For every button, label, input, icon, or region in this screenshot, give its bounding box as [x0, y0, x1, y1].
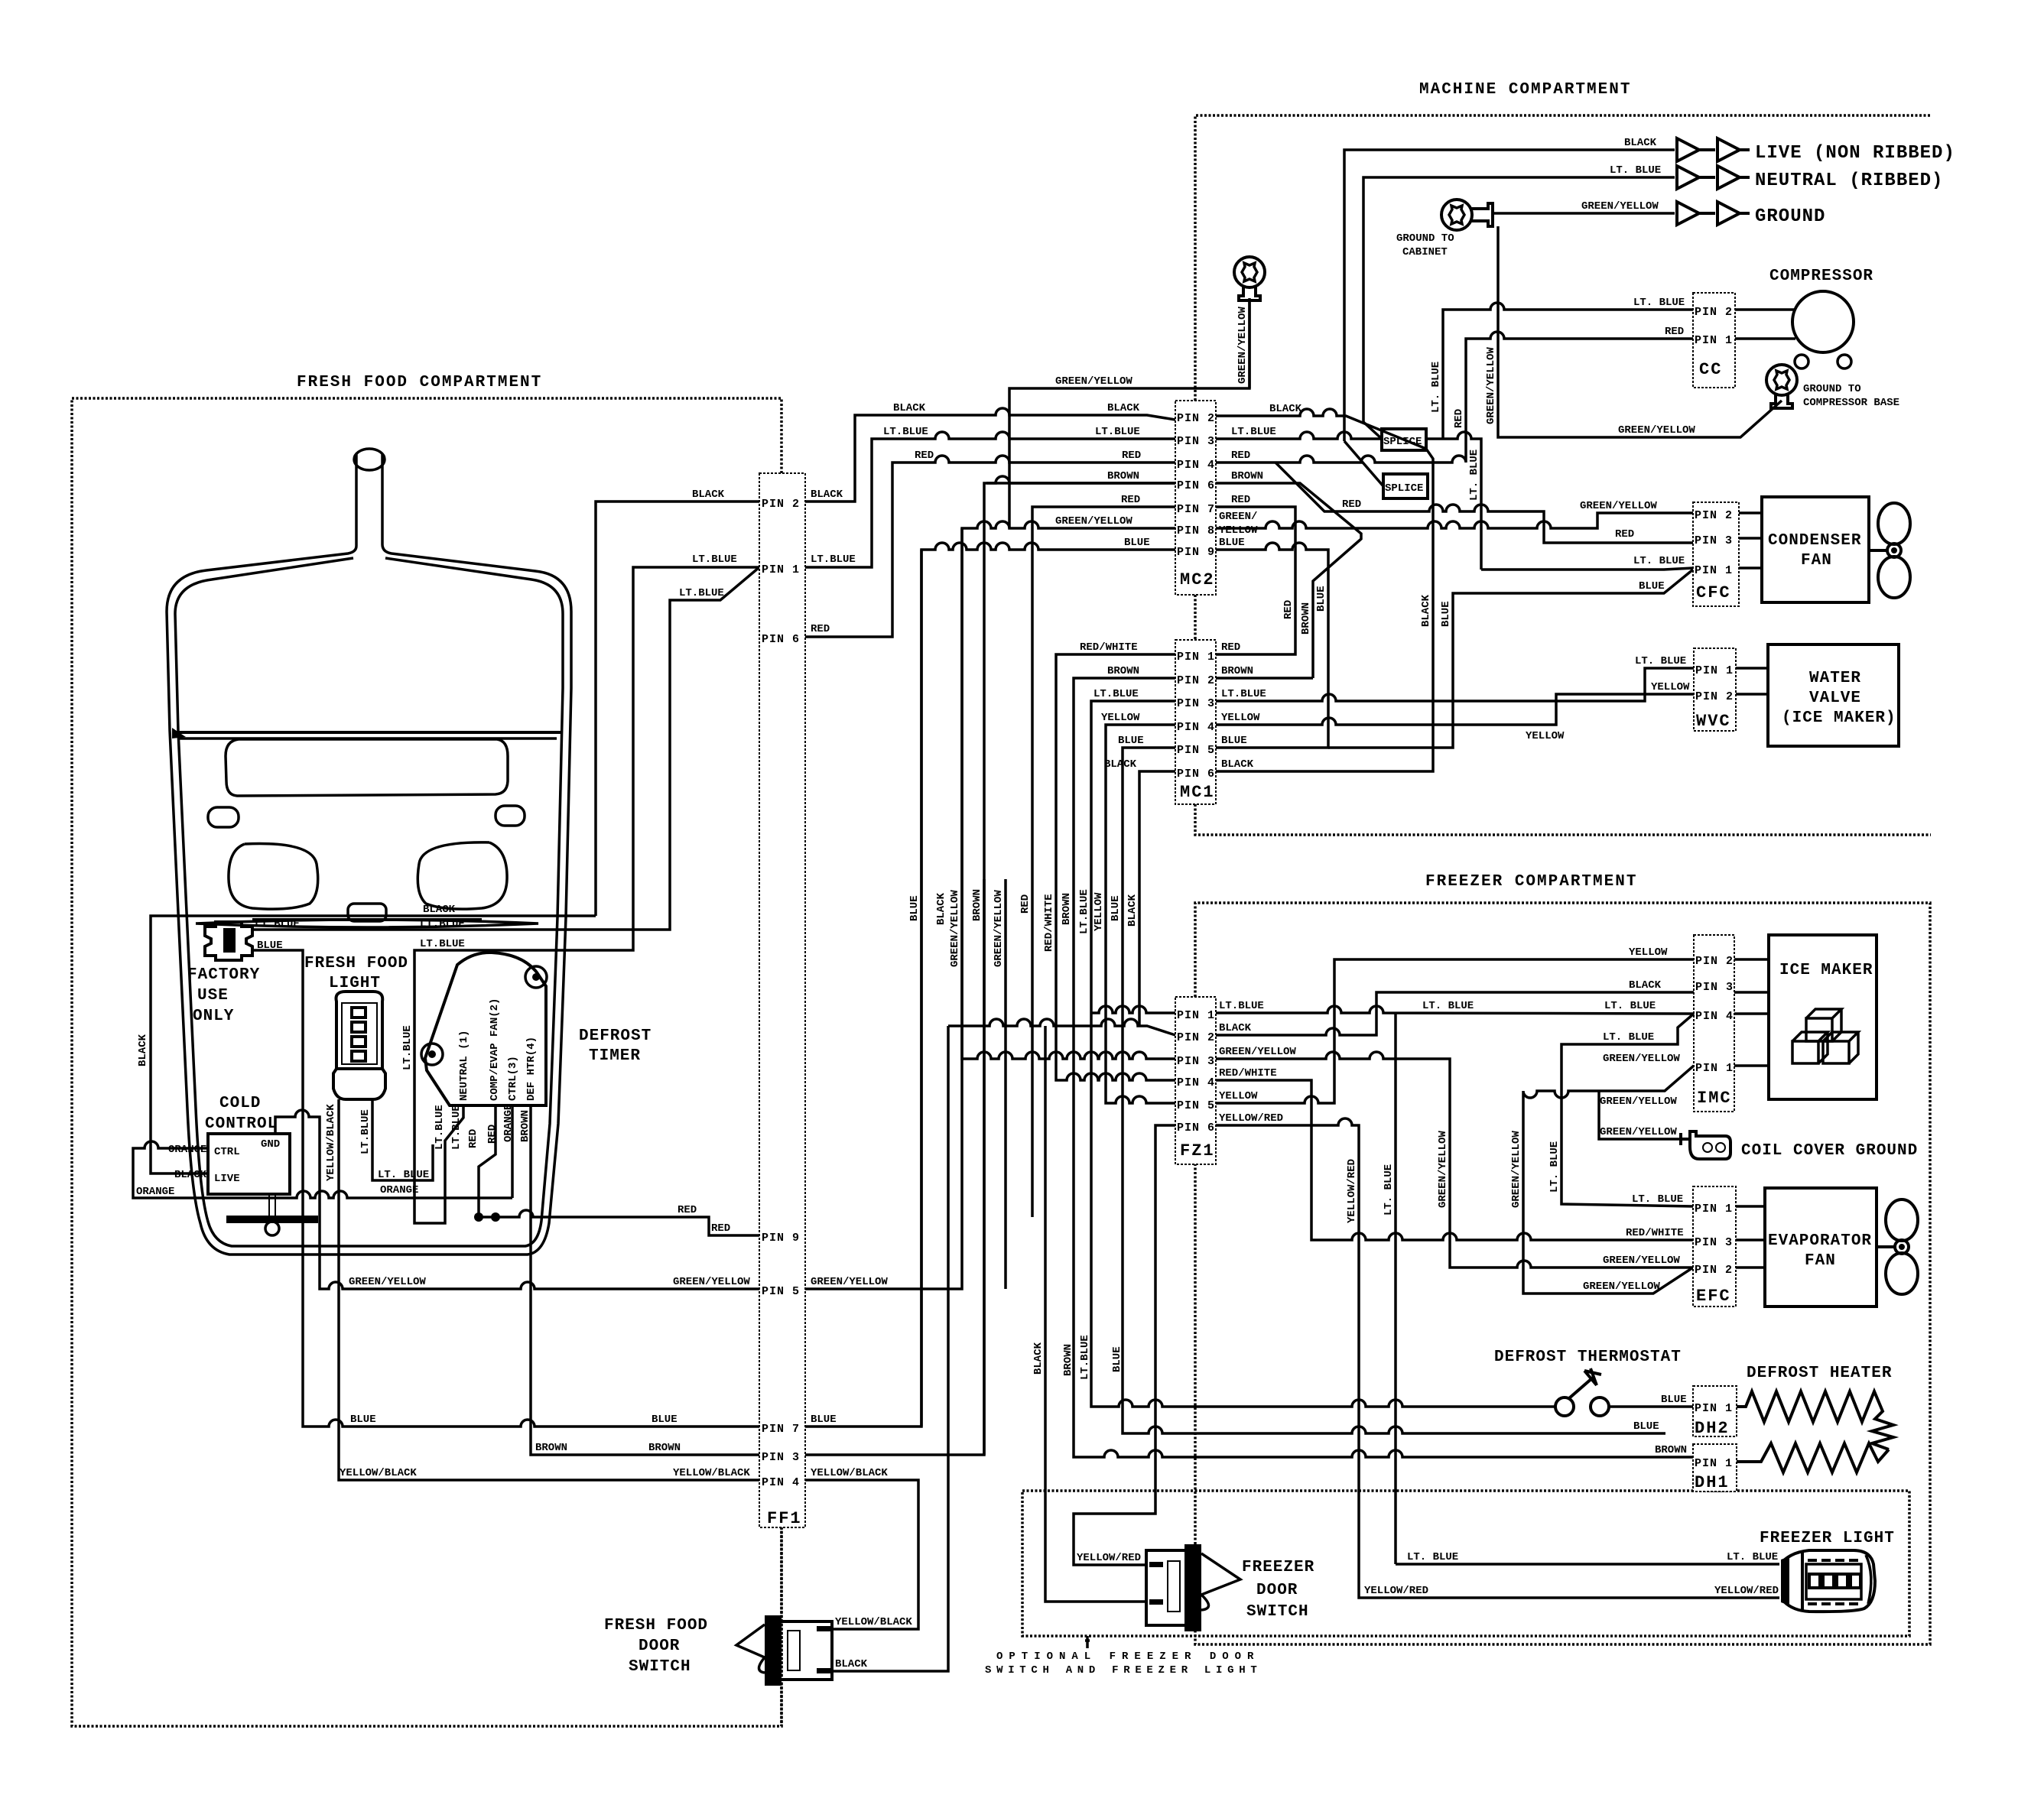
svg-text:BLACK: BLACK: [935, 892, 947, 925]
cold control knob circle: [265, 1222, 279, 1235]
svg-text:YELLOW/RED: YELLOW/RED: [1219, 1112, 1283, 1125]
wire green/yellow IMC pin1 network: [1523, 1066, 1694, 1294]
svg-text:RED: RED: [711, 1222, 730, 1235]
fresh food door switch body: [775, 1621, 832, 1680]
bundle vertical brown: [983, 879, 986, 1455]
liner evaporator cover panel: [226, 739, 508, 796]
freezer door switch beak: [1201, 1553, 1240, 1610]
svg-text:PIN 2: PIN 2: [1177, 674, 1215, 687]
wire blue thermostat to DH2 pin1: [1609, 1405, 1693, 1408]
wire black live line: [1344, 150, 1675, 441]
machine compartment border bottom: [1195, 804, 1931, 835]
ice maker box: [1769, 935, 1877, 1099]
svg-text:BROWN: BROWN: [1061, 893, 1073, 925]
connector DH2 box: [1693, 1386, 1737, 1436]
svg-text:RED: RED: [1665, 326, 1684, 338]
svg-text:PIN 2: PIN 2: [762, 498, 800, 511]
svg-text:PIN 2: PIN 2: [1695, 306, 1733, 319]
svg-text:YELLOW/BLACK: YELLOW/BLACK: [811, 1467, 888, 1479]
wire black MC1 pin6 right to splice2: [1216, 498, 1433, 771]
svg-text:LT.BLUE: LT.BLUE: [359, 1109, 372, 1154]
svg-text:DH2: DH2: [1695, 1419, 1730, 1438]
connector MC1 box: [1175, 640, 1216, 804]
wire IMC pin3 to box: [1734, 991, 1769, 994]
wire CC pin2 to compressor: [1735, 308, 1795, 311]
wire lt. blue to freezer light: [1396, 1563, 1779, 1566]
ground lug machine left tail: [1239, 286, 1260, 300]
svg-text:LT. BLUE: LT. BLUE: [1468, 450, 1480, 501]
connector FZ1 box: [1175, 997, 1216, 1164]
svg-text:PIN 4: PIN 4: [1695, 1010, 1734, 1023]
svg-text:LT. BLUE: LT. BLUE: [1727, 1551, 1778, 1563]
svg-text:CFC: CFC: [1696, 583, 1731, 602]
wire brown FF1 pin3 to MC2 pin6: [805, 476, 1175, 1455]
svg-text:BLACK: BLACK: [1624, 137, 1657, 149]
svg-text:RED: RED: [486, 1125, 499, 1144]
machine compartment border lower: [1194, 595, 1197, 640]
ground arrow 2: [1699, 202, 1750, 225]
svg-text:LIVE (NON RIBBED): LIVE (NON RIBBED): [1755, 143, 1955, 164]
liner shelf band lower: [177, 737, 557, 740]
svg-text:TIMER: TIMER: [589, 1047, 641, 1065]
svg-text:RED/WHITE: RED/WHITE: [1626, 1227, 1684, 1239]
svg-text:DEFROST: DEFROST: [579, 1027, 652, 1045]
svg-text:GREEN/YELLOW: GREEN/YELLOW: [1581, 200, 1659, 213]
bundle vertical brown2 to DH1: [1074, 879, 1693, 1457]
svg-text:BROWN: BROWN: [1107, 470, 1139, 482]
wire red timer comp to FF1 pin9: [479, 1105, 759, 1235]
svg-text:BLUE: BLUE: [257, 940, 283, 952]
freezer door switch body: [1146, 1550, 1198, 1625]
svg-text:GROUND TO: GROUND TO: [1803, 383, 1861, 395]
svg-text:LT.BLUE: LT.BLUE: [679, 587, 724, 599]
svg-text:SPLICE: SPLICE: [1385, 482, 1423, 495]
svg-text:MACHINE COMPARTMENT: MACHINE COMPARTMENT: [1419, 81, 1631, 99]
connector CFC box: [1693, 502, 1739, 606]
svg-text:LT.BLUE: LT.BLUE: [434, 1105, 446, 1150]
fresh food door switch beak: [736, 1625, 765, 1673]
evaporator fan box: [1765, 1188, 1877, 1306]
svg-text:LT. BLUE: LT. BLUE: [378, 1169, 429, 1181]
svg-text:GROUND TO: GROUND TO: [1396, 232, 1454, 245]
wire IMC pin4 to box: [1734, 1012, 1769, 1015]
wire yellow/black light to FF1 pin4: [339, 1099, 759, 1480]
wire lt.blue IMC pin4 lower branch to EFC pin1: [1561, 1014, 1694, 1206]
svg-text:FRESH FOOD COMPARTMENT: FRESH FOOD COMPARTMENT: [297, 374, 542, 391]
svg-text:FREEZER COMPARTMENT: FREEZER COMPARTMENT: [1425, 873, 1637, 891]
wire lt.blue FZ1 pin1 left: [1091, 1006, 1175, 1013]
optional text tick: [1085, 1636, 1090, 1648]
svg-text:RED: RED: [1231, 494, 1250, 506]
svg-text:LT.BLUE: LT.BLUE: [420, 918, 465, 930]
compressor circle: [1792, 291, 1854, 352]
bundle vertical lt.blue to thermostat: [1091, 879, 1555, 1407]
wire lt.blue neutral line: [1363, 177, 1675, 422]
svg-text:ORANGE: ORANGE: [502, 1104, 515, 1142]
wire IMC pin1 to box: [1734, 1064, 1769, 1067]
svg-text:CONDENSER: CONDENSER: [1768, 532, 1861, 550]
svg-text:LT.BLUE: LT.BLUE: [1095, 426, 1140, 438]
water valve box: [1768, 644, 1899, 746]
svg-text:PIN 2: PIN 2: [1177, 412, 1215, 425]
svg-text:PIN 9: PIN 9: [1177, 546, 1215, 559]
svg-text:CABINET: CABINET: [1402, 246, 1448, 258]
connector MC2 box: [1175, 401, 1216, 595]
svg-text:BLACK: BLACK: [1032, 1342, 1045, 1375]
svg-text:PIN 3: PIN 3: [1695, 1236, 1733, 1249]
wire black fresh food door switch up: [832, 1026, 948, 1671]
freezer door switch terminal bottom: [1149, 1599, 1163, 1605]
wire red MC2 pin4 right up to CC pin1: [1216, 332, 1693, 463]
wire green/yellow lug stem: [1248, 300, 1251, 388]
svg-text:BLUE: BLUE: [350, 1414, 376, 1426]
svg-text:PIN 6: PIN 6: [1177, 479, 1215, 492]
freezer light glass line: [1866, 1555, 1871, 1604]
svg-text:ORANGE: ORANGE: [136, 1186, 174, 1198]
ground lug cabinet circle: [1441, 200, 1472, 230]
wire CFC pin2 to fan box: [1739, 511, 1762, 514]
condenser fan box: [1762, 497, 1869, 602]
svg-text:PIN 3: PIN 3: [1177, 697, 1215, 710]
svg-text:LT.BLUE: LT.BLUE: [450, 1105, 463, 1150]
svg-text:PIN 7: PIN 7: [1177, 503, 1215, 516]
svg-text:RED: RED: [915, 450, 934, 462]
splice box 2: [1383, 474, 1428, 498]
svg-text:ORANGE: ORANGE: [380, 1184, 418, 1196]
connector WVC box: [1694, 648, 1736, 731]
wire mc2 pin6 brown right diagonal to MC1 pin2: [1216, 483, 1361, 678]
svg-text:GREEN/YELLOW: GREEN/YELLOW: [1219, 1046, 1296, 1058]
svg-text:FREEZER: FREEZER: [1242, 1559, 1314, 1576]
svg-text:PIN 3: PIN 3: [1695, 534, 1733, 547]
svg-text:PIN 5: PIN 5: [762, 1285, 800, 1298]
ground lug cabinet star: [1449, 206, 1464, 224]
svg-text:BLACK: BLACK: [1104, 758, 1137, 771]
wire red/white MC1 pin1 left down: [1056, 654, 1175, 879]
wire lt.blue MC1 pin3 right: [1216, 668, 1694, 701]
svg-text:EFC: EFC: [1696, 1287, 1731, 1306]
svg-text:BROWN: BROWN: [1062, 1344, 1074, 1376]
factory plug connector: [205, 922, 252, 960]
evaporator fan blade bottom: [1886, 1253, 1918, 1294]
liner duct right: [418, 842, 507, 909]
svg-text:LT. BLUE: LT. BLUE: [1633, 297, 1685, 309]
wire yellow/red FZ1 pin6 left to freezer door switch: [1074, 1125, 1175, 1565]
liner shelf band arrow: [172, 728, 186, 738]
svg-text:BLUE: BLUE: [1221, 735, 1247, 747]
wire brown MC2 pin6 down bundle: [986, 482, 1175, 485]
wire black freezer door switch up: [1045, 1026, 1146, 1602]
svg-text:PIN 3: PIN 3: [1177, 435, 1215, 448]
wire lt.blue splice down to CFC pin1: [1481, 568, 1693, 570]
liner slot right: [496, 806, 525, 826]
svg-text:YELLOW/BLACK: YELLOW/BLACK: [340, 1467, 417, 1479]
defrost thermostat arm: [1569, 1368, 1601, 1398]
svg-text:RED: RED: [1122, 450, 1141, 462]
svg-text:PIN 1: PIN 1: [1695, 1457, 1733, 1470]
wire black FF1 pin2 right to MC2 pin2: [805, 408, 1175, 502]
svg-text:LT.BLUE: LT.BLUE: [811, 553, 856, 566]
svg-text:BLUE: BLUE: [1315, 586, 1327, 612]
svg-text:MC1: MC1: [1180, 783, 1215, 802]
wire lt.blue neutral into splice1: [1363, 422, 1382, 439]
wire green/yellow vertical to MC2 pin8: [805, 521, 1175, 1289]
live arrow 2: [1699, 138, 1750, 161]
svg-text:LT.BLUE: LT.BLUE: [1219, 1000, 1264, 1012]
wire black vertical to FF1 pin2: [596, 502, 759, 916]
svg-text:COMPRESSOR BASE: COMPRESSOR BASE: [1803, 397, 1899, 409]
wire black door switches to FZ1 pin2: [948, 1019, 1175, 1035]
svg-text:PIN 2: PIN 2: [1695, 955, 1734, 968]
ground lug compressor base star: [1774, 371, 1789, 389]
fresh food light bulb: [336, 992, 383, 1069]
wire black MC1 pin6 left down: [1139, 771, 1175, 879]
svg-text:PIN 7: PIN 7: [762, 1423, 800, 1436]
svg-text:CTRL: CTRL: [214, 1146, 240, 1158]
coil cover ground lug: [1681, 1131, 1730, 1159]
svg-text:GREEN/YELLOW: GREEN/YELLOW: [1510, 1131, 1522, 1208]
svg-text:GND: GND: [261, 1138, 280, 1151]
svg-text:LT. BLUE: LT. BLUE: [1422, 1000, 1474, 1012]
wire lt.blue branch down to thermostat: [1394, 1013, 1397, 1564]
wire red FF1 pin6 right to MC2 pin4: [805, 456, 1175, 637]
svg-text:GREEN/YELLOW: GREEN/YELLOW: [349, 1276, 426, 1288]
svg-text:YELLOW: YELLOW: [1221, 712, 1260, 724]
wire lt.blue factory plug to FF1 pin1 branch: [252, 567, 759, 930]
svg-text:LT. BLUE: LT. BLUE: [1430, 362, 1442, 413]
svg-text:SPLICE: SPLICE: [1383, 436, 1422, 448]
svg-text:YELLOW/RED: YELLOW/RED: [1714, 1585, 1779, 1597]
liner bottom shelf: [196, 920, 538, 927]
wire orange timer ctrl stem: [511, 1105, 514, 1198]
svg-text:COIL COVER GROUND: COIL COVER GROUND: [1741, 1142, 1918, 1160]
svg-text:RED/WHITE: RED/WHITE: [1043, 894, 1055, 952]
wire blue FF1 pin7 to MC2 pin9: [805, 543, 1175, 1427]
svg-text:OPTIONAL FREEZER DOOR: OPTIONAL FREEZER DOOR: [996, 1651, 1259, 1663]
svg-text:BLACK: BLACK: [811, 489, 843, 501]
defrost timer screw left: [421, 1044, 443, 1065]
ground lug compressor base circle: [1766, 365, 1797, 395]
wire orange cold control CTRL loop: [133, 1141, 512, 1198]
wire blue MC1 pin5 right to CFC pin1: [1328, 570, 1693, 748]
junction dot red 1: [474, 1212, 483, 1222]
svg-text:PIN 1: PIN 1: [1695, 1203, 1733, 1216]
ground lug machine left circle: [1234, 257, 1265, 287]
svg-text:DEF HTR(4): DEF HTR(4): [525, 1037, 538, 1101]
freezer door switch terminal top: [1149, 1562, 1163, 1567]
svg-text:CONTROL: CONTROL: [205, 1115, 278, 1133]
svg-text:BLUE: BLUE: [811, 1414, 837, 1426]
svg-text:YELLOW/RED: YELLOW/RED: [1346, 1159, 1358, 1223]
svg-text:LT. BLUE: LT. BLUE: [1604, 1000, 1656, 1012]
svg-text:LT. BLUE: LT. BLUE: [1548, 1141, 1561, 1193]
svg-text:PIN 4: PIN 4: [1177, 1076, 1215, 1089]
svg-text:GREEN/YELLOW: GREEN/YELLOW: [1580, 500, 1657, 512]
liner tube top: [354, 449, 385, 470]
wire lt.blue FZ1 pin1 right to IMC pin4: [1216, 1006, 1694, 1014]
wire blue MC1 pin5 left down: [1123, 748, 1175, 879]
svg-text:CC: CC: [1699, 360, 1722, 379]
svg-text:LT. BLUE: LT. BLUE: [1383, 1164, 1395, 1216]
splice box 1: [1382, 429, 1426, 450]
svg-text:SWITCH: SWITCH: [629, 1658, 691, 1676]
svg-text:NEUTRAL (1): NEUTRAL (1): [458, 1031, 470, 1101]
svg-text:PIN 1: PIN 1: [1695, 564, 1733, 577]
svg-text:LT.BLUE: LT.BLUE: [883, 426, 928, 438]
wire splice1 right to CC pin2 and down: [1426, 432, 1481, 570]
freezer compartment border: [1195, 903, 1930, 1644]
svg-text:ORANGE: ORANGE: [168, 1144, 206, 1156]
ground lug compressor base tail: [1771, 394, 1792, 408]
neutral arrow 1: [1677, 166, 1699, 189]
svg-text:NEUTRAL (RIBBED): NEUTRAL (RIBBED): [1755, 170, 1943, 191]
svg-text:RED: RED: [1453, 409, 1465, 428]
defrost thermostat contact right: [1591, 1397, 1609, 1416]
svg-text:YELLOW: YELLOW: [1651, 681, 1690, 693]
svg-text:PIN 3: PIN 3: [1177, 1055, 1215, 1068]
svg-text:BROWN: BROWN: [1107, 665, 1139, 677]
defrost timer screw right: [525, 966, 547, 988]
svg-text:YELLOW/BLACK: YELLOW/BLACK: [835, 1616, 912, 1628]
svg-text:BLUE: BLUE: [1633, 1420, 1659, 1433]
svg-text:YELLOW: YELLOW: [1219, 1090, 1258, 1102]
fresh food light bulb base: [333, 1069, 385, 1099]
svg-text:GREEN/YELLOW: GREEN/YELLOW: [949, 890, 961, 967]
svg-text:GREEN/YELLOW: GREEN/YELLOW: [1437, 1131, 1449, 1208]
svg-text:PIN 4: PIN 4: [762, 1476, 800, 1489]
svg-text:ONLY: ONLY: [193, 1008, 234, 1025]
wire lt.blue MC1 pin3 left down: [1091, 701, 1175, 879]
optional freezer light dotted box: [1022, 1491, 1909, 1636]
svg-text:EVAPORATOR: EVAPORATOR: [1768, 1232, 1872, 1250]
svg-text:DOOR: DOOR: [639, 1638, 680, 1655]
condenser fan blade bottom: [1878, 557, 1910, 598]
wire mc2 pin3 lt.blue right to splice1: [1216, 432, 1382, 439]
svg-text:BLACK: BLACK: [1126, 894, 1139, 927]
svg-text:LT. BLUE: LT. BLUE: [1603, 1031, 1654, 1044]
svg-text:PIN 1: PIN 1: [1177, 651, 1215, 664]
svg-text:RED: RED: [1615, 528, 1634, 540]
svg-text:RED: RED: [1221, 641, 1240, 654]
freezer light divider: [1801, 1551, 1804, 1612]
refrigerator liner outline (outer): [167, 453, 571, 1255]
svg-text:GREEN/YELLOW: GREEN/YELLOW: [1600, 1126, 1677, 1138]
svg-text:WATER: WATER: [1809, 670, 1861, 687]
svg-text:LT.BLUE: LT.BLUE: [1221, 688, 1266, 700]
svg-text:BLACK: BLACK: [835, 1658, 868, 1670]
svg-text:PIN 6: PIN 6: [762, 633, 800, 646]
wire WVC pin1 to valve: [1736, 667, 1768, 670]
svg-text:SWITCH: SWITCH: [1246, 1603, 1309, 1621]
svg-text:LT.BLUE: LT.BLUE: [1078, 889, 1090, 934]
bundle vertical green/yellow to FZ1 pin3: [962, 879, 1175, 1059]
svg-text:RED: RED: [678, 1204, 697, 1216]
svg-text:BLUE: BLUE: [1440, 601, 1452, 627]
wire green/yellow ground line: [1493, 212, 1675, 215]
svg-text:BLACK: BLACK: [692, 489, 725, 501]
fresh food door switch terminal top: [817, 1626, 830, 1631]
svg-text:PIN 1: PIN 1: [1695, 1062, 1734, 1075]
wire blue factory plug to FF1 pin7: [252, 950, 759, 1427]
svg-text:LT.BLUE: LT.BLUE: [255, 918, 300, 930]
wire mc2 pin8 green/yellow right to CFC pin2: [1216, 513, 1693, 528]
svg-text:BLUE: BLUE: [908, 895, 921, 921]
svg-text:YELLOW: YELLOW: [1526, 730, 1565, 742]
svg-text:COLD: COLD: [219, 1095, 261, 1112]
svg-text:SWITCH AND FREEZER LIGHT: SWITCH AND FREEZER LIGHT: [985, 1664, 1262, 1677]
liner bottom shelf bar: [252, 918, 482, 921]
svg-text:DEFROST HEATER: DEFROST HEATER: [1747, 1365, 1892, 1382]
freezer light bulb body: [1784, 1550, 1875, 1612]
freezer light inner: [1806, 1564, 1861, 1599]
svg-text:PIN 5: PIN 5: [1177, 744, 1215, 757]
svg-text:RED: RED: [467, 1129, 479, 1148]
freezer light base bar: [1781, 1556, 1789, 1605]
connector DH1 box: [1693, 1444, 1737, 1492]
liner duct left: [229, 844, 318, 910]
fresh food door switch terminal bottom: [817, 1668, 830, 1673]
bundle vertical blue: [920, 879, 923, 1427]
coil cover ground lug eyes: [1703, 1143, 1712, 1152]
svg-text:FACTORY: FACTORY: [187, 966, 260, 984]
svg-text:LIGHT: LIGHT: [329, 975, 381, 992]
freezer door switch slab: [1184, 1544, 1201, 1631]
svg-text:PIN 4: PIN 4: [1177, 721, 1215, 734]
svg-text:BLACK: BLACK: [1221, 758, 1254, 771]
svg-text:BROWN: BROWN: [519, 1110, 531, 1142]
neutral arrow 2: [1699, 166, 1750, 189]
svg-text:GREEN/: GREEN/: [1219, 511, 1257, 523]
svg-text:FAN: FAN: [1805, 1252, 1836, 1270]
svg-text:PIN 8: PIN 8: [1177, 524, 1215, 537]
defrost thermostat contact left: [1555, 1397, 1574, 1416]
wire red/white FZ1 pin4 right to EFC pin3: [1216, 1080, 1693, 1240]
svg-text:BROWN: BROWN: [1655, 1444, 1687, 1456]
svg-text:RED: RED: [1121, 494, 1140, 506]
svg-text:BROWN: BROWN: [648, 1442, 681, 1454]
svg-text:DH1: DH1: [1695, 1473, 1730, 1492]
wire red MC2 pin7 to bundle: [1032, 507, 1175, 879]
wire yellow/red FZ1 pin6 right down to freezer light: [1216, 1118, 1779, 1598]
wire CFC pin3 to fan box: [1739, 537, 1762, 540]
wire lt.blue timer neutral to FF1 pin1: [414, 567, 759, 1223]
svg-text:BLUE: BLUE: [1111, 1346, 1123, 1372]
fresh food light bulb elements: [352, 1008, 366, 1018]
wire yellow MC1 pin4 right to WVC pin2: [1216, 694, 1694, 725]
cold control box: [208, 1134, 290, 1194]
freezer light dashes bottom: [1808, 1602, 1858, 1605]
svg-text:PIN 6: PIN 6: [1177, 1121, 1215, 1134]
wire black cold control LIVE to fridge top: [151, 916, 596, 1173]
svg-text:BROWN: BROWN: [1221, 665, 1253, 677]
bundle vertical yellow to FZ1 pin5: [1106, 879, 1175, 1103]
svg-text:USE: USE: [197, 987, 229, 1005]
svg-text:LT. BLUE: LT. BLUE: [1633, 555, 1685, 567]
liner slot left: [208, 807, 239, 827]
svg-text:GREEN/YELLOW: GREEN/YELLOW: [1485, 347, 1497, 424]
svg-text:(ICE MAKER): (ICE MAKER): [1782, 709, 1896, 727]
wire lt.blue light to timer: [372, 1099, 433, 1180]
svg-text:LT. BLUE: LT. BLUE: [1407, 1551, 1458, 1563]
liner center tab: [348, 904, 386, 921]
defrost timer cam plate: [425, 953, 546, 1105]
connector IMC box: [1694, 935, 1734, 1112]
wire EFC pin2 to box: [1736, 1266, 1765, 1269]
svg-text:BLUE: BLUE: [1639, 580, 1665, 592]
svg-text:LT.BLUE: LT.BLUE: [420, 938, 465, 950]
svg-text:PIN 1: PIN 1: [1695, 1402, 1733, 1415]
svg-text:BLACK: BLACK: [893, 402, 926, 414]
